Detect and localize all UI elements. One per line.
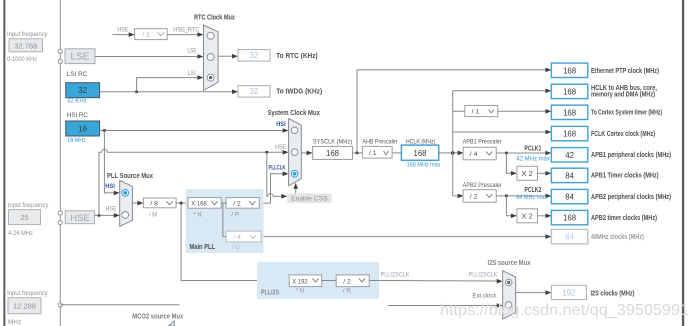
- divider APB2 Prescaler: [463, 182, 503, 202]
- svg-text:PLLI2SCLK: PLLI2SCLK: [381, 272, 411, 279]
- svg-text:HSE: HSE: [70, 213, 90, 224]
- svg-text:PLLI2SCLK: PLLI2SCLK: [469, 271, 499, 278]
- svg-text:168: 168: [326, 149, 339, 158]
- output To RTC: [238, 50, 318, 62]
- oscillator LSE: [65, 49, 95, 64]
- wire /M to PLL N: [176, 202, 188, 205]
- svg-text:SYSCLK (MHz): SYSCLK (MHz): [313, 138, 352, 145]
- wire HSE to PLL mux: [95, 206, 120, 218]
- svg-text:Input frequency: Input frequency: [7, 31, 48, 38]
- svg-text:HSE: HSE: [275, 144, 286, 151]
- wire LSI branch to RTC mux: [137, 70, 204, 92]
- wire N to P: [221, 202, 226, 204]
- divider Cortex /1: [465, 106, 498, 117]
- svg-text:HSE_RTC: HSE_RTC: [173, 26, 199, 33]
- left panel edge: [3, 0, 5, 326]
- svg-text:168: 168: [563, 214, 576, 223]
- output APB2 peripheral clocks: [551, 189, 671, 203]
- wire HCLK vertical bus: [452, 91, 454, 196]
- button Enable CSS: [287, 183, 331, 203]
- svg-text:168: 168: [563, 108, 576, 117]
- svg-text:X 2: X 2: [522, 212, 533, 221]
- svg-text:168: 168: [563, 130, 576, 139]
- svg-text:/ 4: / 4: [233, 234, 241, 241]
- svg-text:/ 1: / 1: [472, 109, 480, 116]
- svg-text:HSE: HSE: [106, 206, 117, 213]
- svg-text:HSI RC: HSI RC: [67, 112, 88, 119]
- multiplier APB1 X2: [517, 166, 538, 180]
- wire SYSCLK riser to Ethernet PTP: [357, 68, 551, 153]
- wire MCO2 from I2S CKIN: [60, 304, 179, 306]
- input frequency group HSE: [8, 202, 49, 237]
- divider PLLI2S /R: [336, 275, 369, 295]
- wire HCLK to AHB row: [453, 89, 552, 94]
- svg-text:/ 4: / 4: [470, 151, 478, 158]
- output I2S clocks: [551, 285, 635, 299]
- pin circle I2S CKIN: [58, 303, 62, 307]
- output 48MHz clocks: [551, 229, 644, 243]
- output To IWDG: [238, 86, 323, 98]
- svg-text:To RTC (KHz): To RTC (KHz): [276, 51, 318, 60]
- svg-text:4-26 MHz: 4-26 MHz: [8, 230, 33, 237]
- node HCLK: [401, 138, 441, 168]
- svg-text:42 MHz max: 42 MHz max: [516, 155, 550, 162]
- svg-text:Input frequency: Input frequency: [8, 202, 49, 209]
- wire AHB prescaler to HCLK: [392, 152, 401, 154]
- svg-text:PLLCLK: PLLCLK: [269, 164, 286, 171]
- svg-text:APB1 Timer clocks (MHz): APB1 Timer clocks (MHz): [591, 171, 659, 180]
- oscillator HSI RC: [66, 112, 100, 144]
- divider PLL /M: [143, 198, 176, 218]
- divider PLL /Q: [226, 231, 261, 251]
- svg-text:0-1000 KHz: 0-1000 KHz: [7, 56, 37, 63]
- svg-text:168: 168: [563, 87, 576, 96]
- wire FCLK row: [453, 130, 552, 135]
- output Ethernet PTP clock: [551, 63, 659, 77]
- svg-text:/ 8: / 8: [150, 200, 158, 207]
- svg-text:192: 192: [562, 289, 575, 298]
- svg-text:PLLI2S: PLLI2S: [261, 288, 279, 297]
- svg-text:APB1 Prescaler: APB1 Prescaler: [463, 138, 503, 145]
- multiplier PLLI2S N: [289, 275, 322, 295]
- wire 48MHz row: [261, 234, 551, 239]
- oscillator LSI RC: [66, 71, 100, 105]
- wire PCLK1: [496, 144, 551, 163]
- svg-text:84: 84: [565, 171, 574, 180]
- svg-text:LSI RC: LSI RC: [67, 71, 88, 78]
- multiplier PLL N: [188, 198, 221, 219]
- mux RTC Clock Mux: [194, 13, 235, 91]
- divider HSE RTC /2: [135, 29, 168, 40]
- output APB1 Timer clocks: [551, 168, 659, 182]
- svg-text:32 KHz: 32 KHz: [67, 98, 87, 105]
- svg-text:I2S source Mux: I2S source Mux: [488, 258, 531, 267]
- wire Ext clock to I2S mux: [388, 292, 503, 308]
- svg-text:To IWDG (KHz): To IWDG (KHz): [276, 86, 323, 95]
- output HCLK to AHB bus: [551, 83, 657, 99]
- svg-text:* N: * N: [296, 288, 304, 295]
- svg-text:Ext.clock: Ext.clock: [472, 292, 497, 299]
- svg-text:Ethernet PTP clock (MHz): Ethernet PTP clock (MHz): [591, 66, 659, 75]
- svg-text:/ R: / R: [343, 288, 351, 295]
- wire HSE stub to RTC divider: [113, 26, 135, 37]
- svg-text:https://blog.csdn.net/qq_39505: https://blog.csdn.net/qq_39505991: [440, 302, 689, 319]
- mux System Clock Mux: [267, 108, 320, 186]
- wire APB2 timer branch: [506, 196, 517, 218]
- svg-text:PCLK2: PCLK2: [524, 185, 541, 194]
- wire PLLI2S riser: [181, 203, 289, 280]
- output FCLK Cortex clock: [551, 126, 655, 140]
- svg-text:32: 32: [250, 87, 259, 96]
- wire HSI riser to PLL mux: [104, 131, 119, 196]
- left input bus: [59, 0, 61, 326]
- svg-text:X 168: X 168: [191, 201, 207, 208]
- svg-text:16: 16: [78, 124, 87, 133]
- wire APB1 timer branch: [506, 153, 517, 176]
- svg-text:X 2: X 2: [522, 169, 533, 178]
- svg-text:APB1 peripheral clocks (MHz): APB1 peripheral clocks (MHz): [591, 150, 671, 159]
- svg-text:To Cortex System timer (MHz): To Cortex System timer (MHz): [591, 108, 662, 117]
- wire Cortex divider to output: [498, 109, 552, 114]
- wire APB2 row: [453, 194, 464, 199]
- input frequency group LSE: [7, 31, 48, 63]
- svg-text:LSE: LSE: [71, 52, 90, 63]
- wire SYSCLK to AHB prescaler: [353, 151, 363, 154]
- oscillator HSE: [65, 211, 94, 224]
- svg-text:84: 84: [565, 193, 574, 202]
- wire PLL mux to /M: [132, 201, 143, 206]
- pin circle HSE in: [58, 211, 62, 215]
- mux PLL Source Mux: [107, 171, 153, 227]
- wire to Cortex divider: [453, 110, 465, 112]
- svg-text:Enable CSS: Enable CSS: [291, 196, 328, 203]
- svg-text:PLL Source Mux: PLL Source Mux: [107, 171, 153, 180]
- svg-text:HCLK (MHz): HCLK (MHz): [406, 138, 436, 145]
- wire LSI to IWDG: [100, 89, 238, 94]
- svg-text:32.768: 32.768: [14, 41, 37, 50]
- svg-text:HSE: HSE: [117, 26, 128, 33]
- wire system clock mux to SYSCLK: [301, 151, 312, 156]
- svg-text:APB2 peripheral clocks (MHz): APB2 peripheral clocks (MHz): [591, 192, 671, 201]
- svg-text:Input frequency: Input frequency: [7, 290, 48, 297]
- wire HSE riser to system clock mux with hop: [99, 144, 289, 215]
- svg-text:/ Q: / Q: [232, 244, 240, 251]
- svg-text:HSI: HSI: [276, 121, 286, 128]
- wire HSI to system clock mux: [100, 128, 289, 133]
- svg-text:MCO2 source Mux: MCO2 source Mux: [132, 311, 183, 320]
- svg-text:/ P: / P: [231, 211, 239, 218]
- wire Q branch: [223, 203, 226, 237]
- wire HCLK to bus: [439, 151, 464, 156]
- svg-text:32: 32: [250, 51, 259, 60]
- svg-text:12.288: 12.288: [13, 301, 36, 310]
- svg-text:I2S clocks (MHz): I2S clocks (MHz): [591, 288, 635, 297]
- input frequency group I2S CKIN: [7, 290, 48, 326]
- wire PCLK2: [496, 185, 551, 201]
- output APB1 peripheral clocks: [551, 148, 671, 162]
- wire HSE CSS branch to Enable CSS with hop: [267, 152, 288, 198]
- svg-text:PCLK1: PCLK1: [524, 144, 541, 153]
- svg-text:LSE: LSE: [187, 47, 196, 54]
- svg-text:48MHz clocks (MHz): 48MHz clocks (MHz): [591, 232, 644, 241]
- svg-text:RTC Clock Mux: RTC Clock Mux: [194, 13, 235, 22]
- svg-text:FCLK Cortex clock (MHz): FCLK Cortex clock (MHz): [591, 129, 655, 138]
- block Main PLL: [186, 189, 264, 253]
- svg-text:/ 2: / 2: [233, 201, 241, 208]
- svg-text:HSI: HSI: [105, 183, 115, 190]
- pin circle HSE out: [58, 221, 62, 225]
- svg-text:42: 42: [565, 151, 574, 160]
- svg-text:AHB Prescaler: AHB Prescaler: [362, 138, 398, 145]
- svg-text:/ M: / M: [149, 211, 157, 218]
- svg-text:/ 2: / 2: [143, 32, 151, 39]
- pin circle LSE out: [58, 59, 62, 63]
- wire I2S N to R: [322, 280, 337, 282]
- pin circle LSE in: [58, 49, 62, 53]
- divider APB1 Prescaler: [463, 138, 503, 159]
- svg-text:/ 2: / 2: [470, 193, 478, 200]
- wire RTC mux to RTC box: [218, 54, 238, 59]
- svg-text:* N: * N: [194, 211, 202, 218]
- svg-text:25: 25: [20, 213, 28, 222]
- svg-text:16 MHz: 16 MHz: [67, 137, 86, 144]
- divider PLL /P: [226, 198, 259, 219]
- svg-text:memory and DMA (MHz): memory and DMA (MHz): [591, 90, 655, 99]
- wire LSE to RTC mux: [95, 47, 203, 58]
- wire APB2 timer out: [538, 214, 552, 219]
- wire APB1 timer out: [538, 171, 552, 176]
- svg-text:168: 168: [563, 66, 576, 75]
- block PLLI2S: [257, 262, 379, 299]
- svg-text:X 192: X 192: [292, 278, 308, 285]
- wire I2S mux to I2S clocks: [516, 290, 552, 295]
- svg-text:168: 168: [413, 149, 426, 158]
- svg-text:Main PLL: Main PLL: [190, 242, 216, 251]
- svg-text:System Clock Mux: System Clock Mux: [267, 108, 320, 117]
- svg-text:168 MHz max: 168 MHz max: [407, 162, 442, 169]
- svg-text:/ 1: / 1: [369, 150, 377, 157]
- multiplier APB2 X2: [517, 209, 538, 223]
- mux MCO2 top sliver: [168, 321, 174, 326]
- svg-text:APB2 timer clocks (MHz): APB2 timer clocks (MHz): [591, 213, 657, 222]
- svg-text:32: 32: [78, 86, 87, 95]
- wire HSE_RTC to RTC mux: [167, 26, 203, 37]
- divider AHB Prescaler: [362, 138, 398, 158]
- mux I2S source Mux: [488, 258, 531, 319]
- svg-text:84: 84: [565, 233, 574, 242]
- output To Cortex System timer: [551, 105, 662, 119]
- wire PLLI2SCLK to I2S mux: [369, 271, 503, 283]
- svg-text:MHz: MHz: [8, 319, 21, 326]
- svg-text:APB2 Prescaler: APB2 Prescaler: [463, 182, 503, 189]
- wire PLLCLK riser to system clock mux: [259, 172, 288, 204]
- svg-text:LSI: LSI: [188, 70, 196, 77]
- svg-text:84 MHz max: 84 MHz max: [516, 194, 548, 201]
- output APB2 timer clocks: [551, 210, 657, 224]
- node SYSCLK: [313, 138, 353, 159]
- svg-text:/ 2: / 2: [343, 278, 351, 285]
- right panel edge: [682, 0, 684, 326]
